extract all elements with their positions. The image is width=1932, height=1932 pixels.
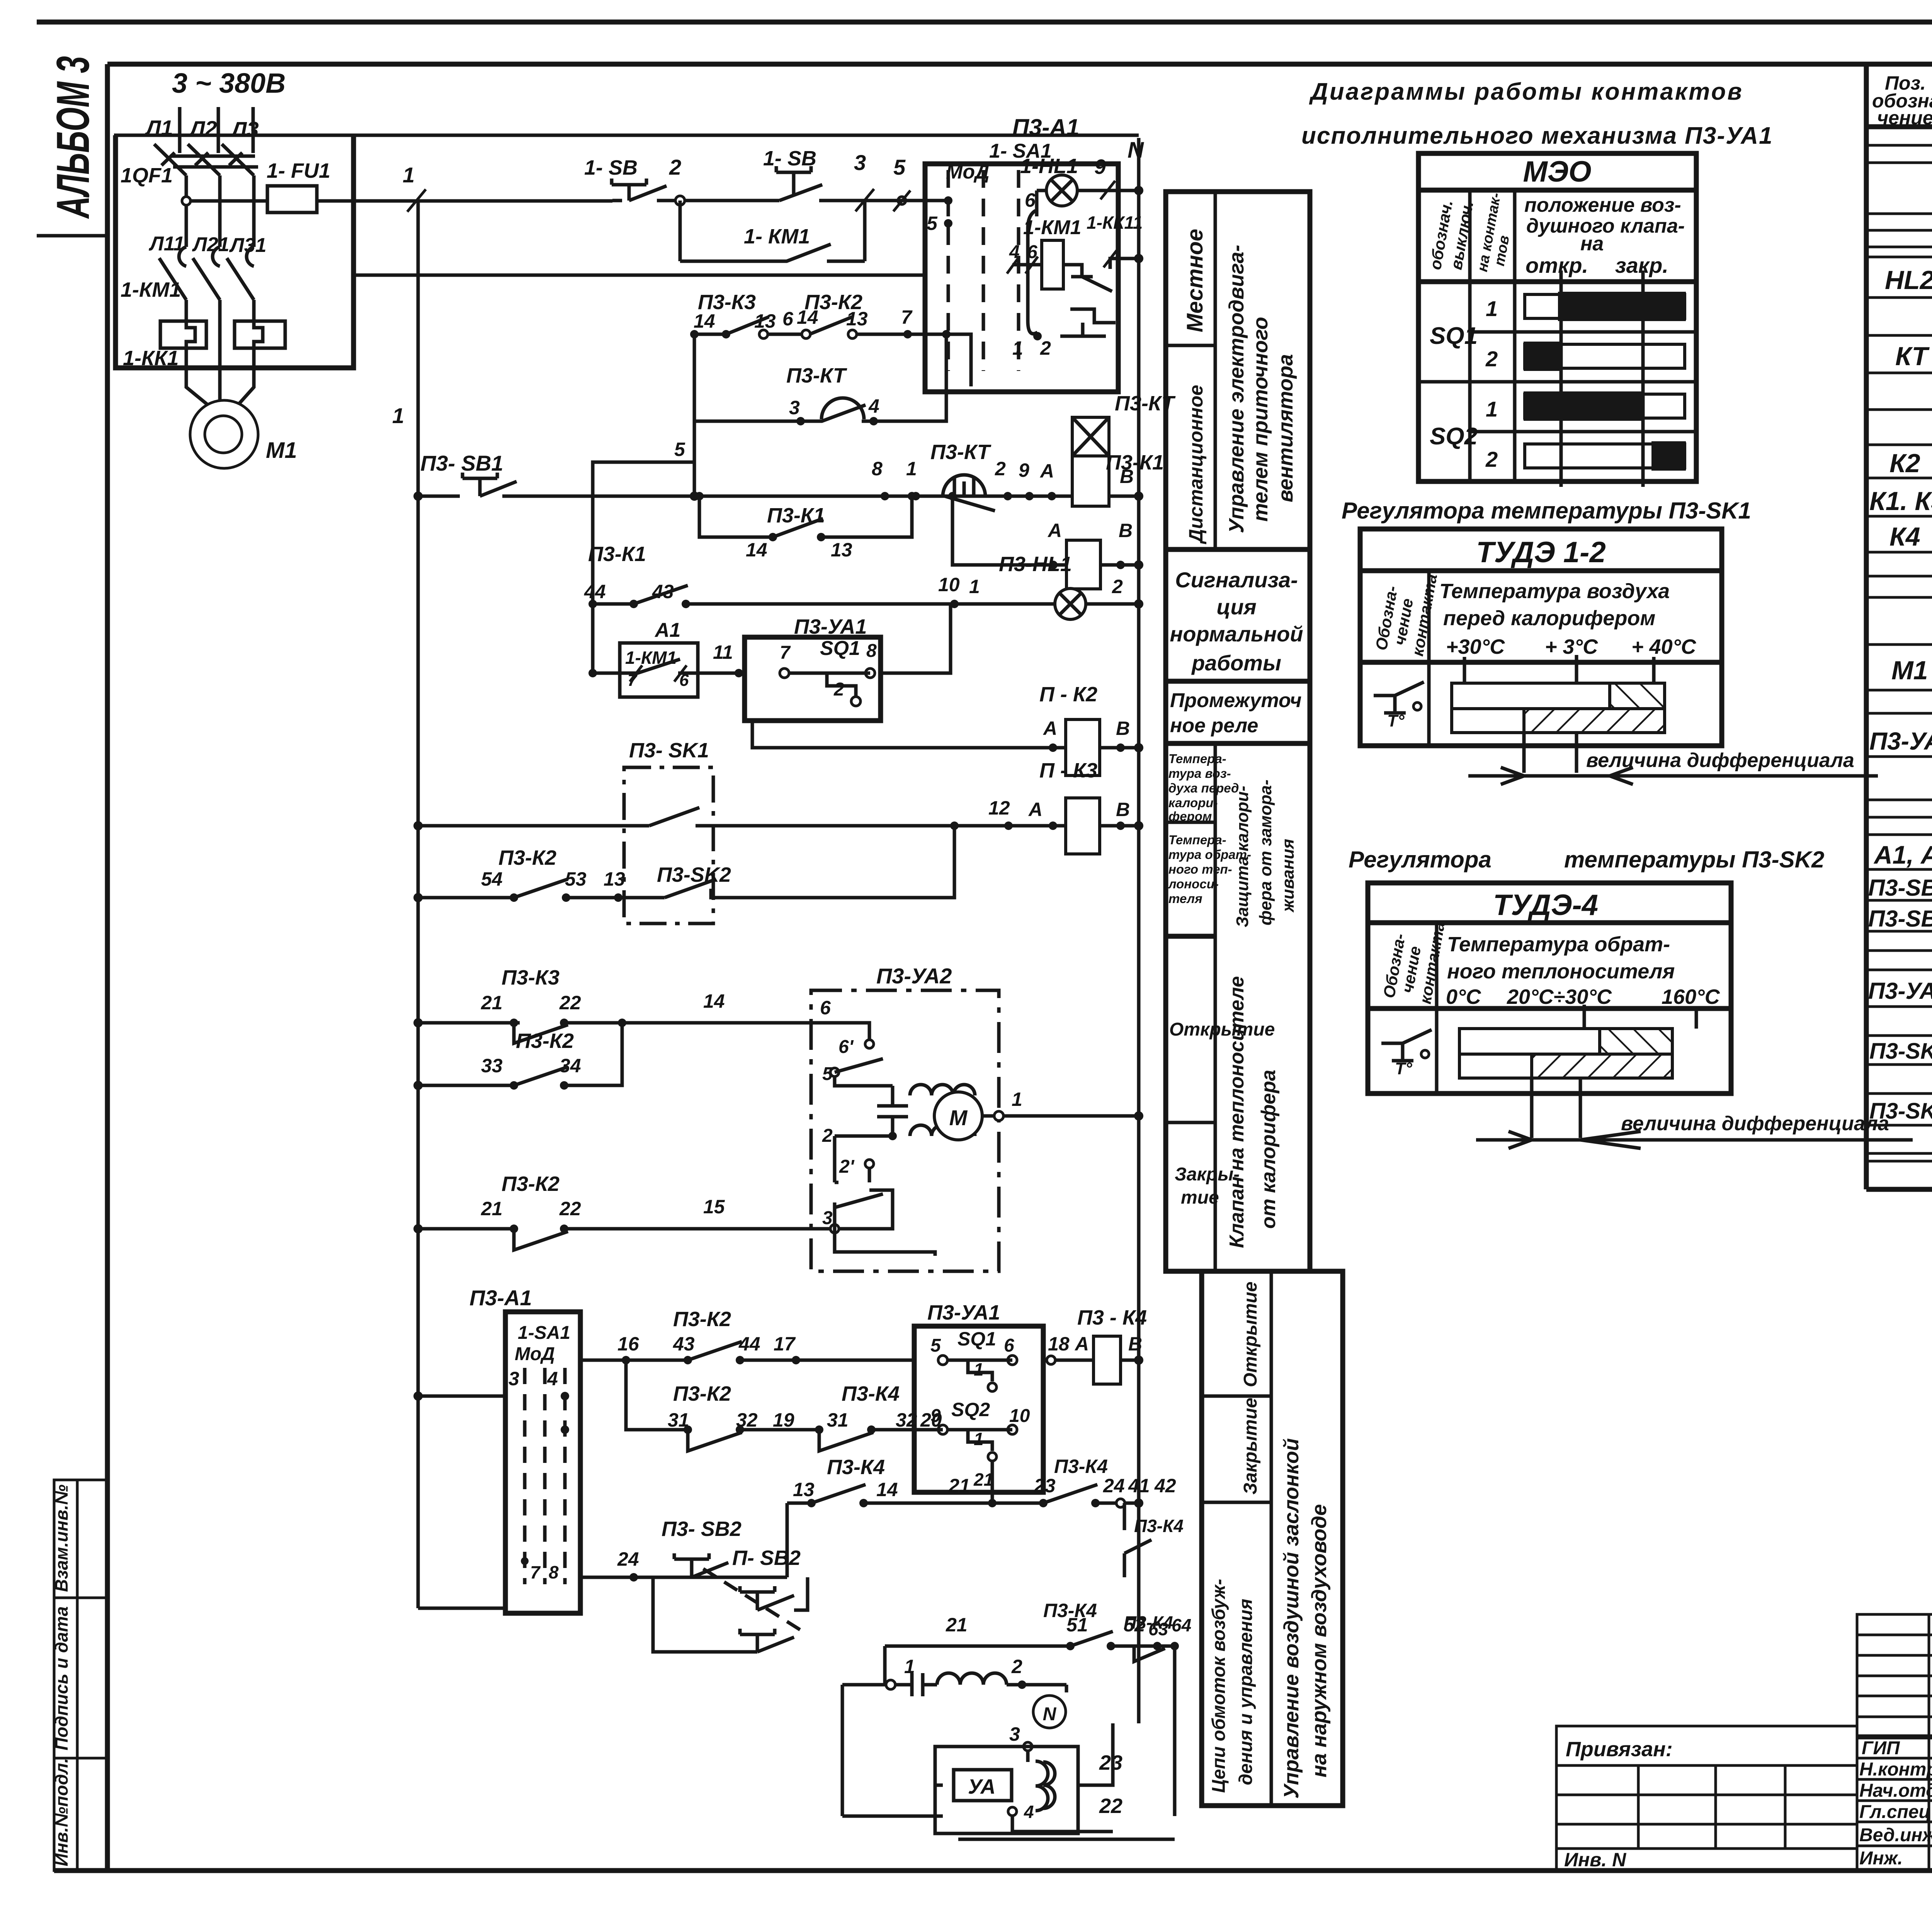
svg-text:Взам.инв.№: Взам.инв.№	[51, 1484, 71, 1592]
svg-text:19: 19	[773, 1409, 794, 1431]
svg-text:44: 44	[584, 581, 606, 602]
svg-text:43: 43	[673, 1333, 695, 1355]
svg-text:П3-К4: П3-К4	[827, 1456, 885, 1479]
node labels 8 1	[872, 458, 920, 500]
diagram heading	[1301, 78, 1773, 149]
start button 1-SB	[685, 147, 865, 201]
svg-text:от калорифера: от калорифера	[1257, 1070, 1280, 1229]
svg-text:24: 24	[617, 1548, 639, 1570]
svg-text:11: 11	[713, 641, 733, 663]
close rung P3-K2 31-32 P3-K4 31-32	[626, 1360, 943, 1451]
svg-text:П3-К4: П3-К4	[1054, 1456, 1108, 1477]
svg-text:П - К2: П - К2	[1039, 683, 1097, 706]
privyazan block	[1556, 1726, 1857, 1871]
time relay contact P3-KT 3-4	[694, 330, 951, 496]
svg-text:13: 13	[831, 539, 852, 561]
svg-text:8: 8	[872, 458, 883, 480]
TUDE-4 heading	[1349, 847, 1824, 872]
title block signature table	[1857, 1614, 1932, 1869]
svg-text:22: 22	[559, 1198, 581, 1219]
svg-text:П3-УА1: П3-УА1	[1869, 727, 1932, 755]
svg-text:1: 1	[1012, 337, 1023, 359]
thermal relay heaters 1-KK1	[123, 300, 285, 370]
svg-text:52: 52	[1124, 1614, 1145, 1636]
enclosure box power assembly	[116, 135, 354, 368]
svg-text:1: 1	[392, 403, 404, 428]
svg-text:SQ1: SQ1	[957, 1328, 996, 1350]
svg-text:Клапан на теплоносителе: Клапан на теплоносителе	[1226, 976, 1248, 1248]
svg-text:1: 1	[1486, 296, 1498, 321]
drawing frame bottom	[54, 1868, 1932, 1873]
svg-text:П3-УА2: П3-УА2	[876, 964, 952, 988]
svg-text:2: 2	[1040, 337, 1051, 359]
svg-text:1-КМ1: 1-КМ1	[121, 278, 181, 301]
svg-text:1-HL1: 1-HL1	[1020, 155, 1078, 178]
svg-text:1-КК1: 1-КК1	[123, 347, 179, 370]
relay contact P3-K1 44-43 signal rung	[584, 496, 1055, 673]
svg-text:3: 3	[789, 397, 800, 418]
svg-text:П3-А1: П3-А1	[1012, 114, 1079, 140]
wire 23	[935, 1723, 1122, 1832]
svg-text:ное реле: ное реле	[1170, 714, 1258, 737]
svg-text:5: 5	[674, 439, 685, 460]
svg-text:5: 5	[930, 1335, 941, 1356]
auxiliary box A1 1-KM1	[588, 619, 745, 697]
svg-text:21: 21	[973, 1469, 993, 1490]
svg-text:П3-К2: П3-К2	[516, 1029, 574, 1053]
svg-text:Защита калори-: Защита калори-	[1233, 786, 1252, 927]
parts list header text	[1872, 72, 1932, 129]
bypass jog wire 5	[593, 439, 699, 501]
svg-text:вентилятора: вентилятора	[1274, 354, 1297, 502]
svg-text:М1: М1	[1891, 656, 1928, 685]
circuit breaker 1QF1	[121, 144, 258, 247]
actuator box P3-UA1	[713, 604, 951, 721]
svg-text:5: 5	[927, 213, 938, 234]
svg-text:теля: теля	[1168, 891, 1202, 906]
svg-text:нормальной: нормальной	[1170, 622, 1303, 646]
svg-text:3: 3	[854, 150, 866, 175]
svg-text:2: 2	[822, 1126, 833, 1146]
svg-text:перед калорифером: перед калорифером	[1443, 607, 1655, 630]
svg-text:1- SB: 1- SB	[584, 156, 638, 179]
svg-text:Привязан:: Привязан:	[1566, 1738, 1673, 1761]
svg-text:П3 - К4: П3 - К4	[1077, 1306, 1147, 1329]
svg-text:Инж.: Инж.	[1859, 1848, 1903, 1869]
svg-text:А: А	[1047, 520, 1062, 541]
svg-text:21: 21	[481, 1198, 503, 1219]
TUDE-4 table	[1368, 883, 1731, 1138]
page top border	[37, 20, 1932, 25]
svg-text:Т°: Т°	[1387, 711, 1405, 730]
svg-text:КТ: КТ	[1895, 342, 1930, 371]
svg-text:2: 2	[1011, 1656, 1022, 1677]
svg-text:1- КМ1: 1- КМ1	[744, 225, 810, 248]
N terminal	[1128, 138, 1144, 1723]
svg-text:24: 24	[1103, 1475, 1125, 1497]
svg-text:М1: М1	[266, 438, 297, 463]
svg-text:Открытие: Открытие	[1169, 1019, 1275, 1040]
svg-text:SQ1: SQ1	[1430, 323, 1478, 349]
relay contact P3-K1 14-13 bypass	[695, 492, 916, 561]
box P3-A1 upper	[925, 114, 1118, 392]
svg-text:чение: чение	[1877, 107, 1932, 129]
svg-text:44: 44	[738, 1333, 760, 1355]
svg-text:+ 3°С: + 3°С	[1545, 635, 1598, 658]
motor M	[934, 1092, 982, 1140]
svg-text:1: 1	[974, 1359, 984, 1379]
svg-text:Темпера-: Темпера-	[1168, 833, 1226, 847]
svg-text:2: 2	[833, 679, 844, 700]
svg-text:живания: живания	[1279, 839, 1298, 913]
svg-text:13: 13	[604, 868, 625, 890]
relay contact P3-K2 21-22 close rung	[413, 1172, 811, 1250]
relay contacts P3-K3 P3-K2 rung	[690, 291, 971, 386]
lamp 1-HL1	[1020, 155, 1108, 216]
valve actuator box P3-UA2	[811, 964, 1143, 1271]
svg-text:9: 9	[1019, 459, 1029, 481]
svg-text:14: 14	[797, 306, 818, 328]
svg-text:2: 2	[669, 155, 681, 179]
svg-text:калори-: калори-	[1168, 796, 1218, 810]
svg-text:А1, А2: А1, А2	[1873, 840, 1932, 869]
album label АЛЬБОМ 3	[37, 56, 107, 236]
svg-text:2: 2	[1112, 576, 1123, 597]
svg-text:П3- SB1: П3- SB1	[420, 451, 503, 475]
bars	[1452, 683, 1665, 709]
intermediate relay P-K2	[752, 683, 1143, 776]
svg-text:П3-SK1: П3-SK1	[1869, 1039, 1932, 1064]
node 5	[865, 155, 948, 211]
UA coil block	[935, 1747, 1078, 1833]
svg-text:на наружном воздуховоде: на наружном воздуховоде	[1308, 1504, 1331, 1777]
svg-text:ного теп-: ного теп-	[1168, 862, 1232, 876]
svg-text:+ 40°С: + 40°С	[1631, 635, 1696, 658]
svg-text:4: 4	[1024, 1802, 1034, 1822]
svg-text:Сигнализа-: Сигнализа-	[1175, 568, 1298, 592]
svg-text:МЭО: МЭО	[1523, 155, 1591, 188]
svg-text:исполнительного механизма П3: исполнительного механизма П3-УА1	[1301, 122, 1773, 149]
svg-text:П3-К4: П3-К4	[1134, 1516, 1184, 1536]
svg-text:П3-КТ: П3-КТ	[786, 364, 847, 387]
top bus wire	[114, 134, 1139, 137]
svg-text:АЛЬБОМ 3: АЛЬБОМ 3	[47, 56, 99, 219]
svg-text:13: 13	[793, 1479, 815, 1500]
stop button 1-SB	[584, 156, 680, 201]
SQ2 contact 2 bar	[1525, 444, 1685, 468]
svg-text:Темпера-: Темпера-	[1168, 752, 1226, 766]
svg-text:телем приточного: телем приточного	[1249, 317, 1272, 522]
thermal contact symbol	[1381, 1030, 1432, 1061]
svg-text:5: 5	[893, 155, 906, 179]
svg-text:В: В	[1116, 718, 1130, 739]
relay contact P3-K2 54-53 rung	[413, 821, 959, 902]
svg-text:тура воз-: тура воз-	[1168, 766, 1231, 781]
svg-text:Дистанционное: Дистанционное	[1185, 385, 1207, 544]
contactor coil 1-KM1	[1007, 216, 1081, 289]
svg-text:Управление воздушной заслонк: Управление воздушной заслонкой	[1280, 1438, 1303, 1799]
svg-text:15: 15	[703, 1196, 725, 1218]
svg-text:SQ2: SQ2	[1430, 423, 1478, 450]
svg-text:духа перед: духа перед	[1168, 781, 1239, 795]
svg-text:1-SA1: 1-SA1	[518, 1323, 570, 1343]
pushbuttons P3-SB2 / P-SB2	[580, 1503, 808, 1652]
svg-text:6: 6	[1004, 1335, 1014, 1356]
svg-text:П3-К3: П3-К3	[502, 966, 560, 989]
svg-text:Температура обрат-: Температура обрат-	[1447, 933, 1670, 956]
svg-text:П3-SB2: П3-SB2	[1868, 906, 1932, 932]
drawing frame top	[107, 62, 1932, 67]
svg-text:К4: К4	[1889, 522, 1920, 551]
svg-text:положение воз-: положение воз-	[1524, 194, 1681, 216]
contactor aux contact 1-KM1 holding	[680, 201, 865, 261]
svg-text:ТУДЭ-4: ТУДЭ-4	[1493, 889, 1598, 922]
svg-text:7: 7	[901, 306, 913, 328]
motor windings	[910, 1125, 975, 1136]
svg-text:10: 10	[938, 574, 960, 595]
svg-text:Т°: Т°	[1395, 1059, 1412, 1078]
svg-text:18: 18	[1048, 1333, 1070, 1355]
svg-text:41: 41	[1128, 1475, 1150, 1497]
svg-text:1: 1	[906, 458, 917, 480]
contactor main contacts 1-KM1	[121, 247, 254, 301]
svg-text:тие: тие	[1181, 1187, 1219, 1208]
svg-text:М: М	[949, 1105, 968, 1130]
svg-text:Цепи обмоток возбуж-: Цепи обмоток возбуж-	[1209, 1579, 1229, 1793]
svg-text:6: 6	[782, 308, 794, 330]
svg-text:23: 23	[1034, 1475, 1056, 1497]
svg-text:14: 14	[876, 1479, 898, 1500]
svg-text:Управление электродвига-: Управление электродвига-	[1225, 245, 1248, 533]
time relay coil P3-KT	[1072, 392, 1176, 506]
svg-text:П3-К1: П3-К1	[767, 504, 825, 527]
svg-text:Подпись и дата: Подпись и дата	[51, 1606, 71, 1750]
wires heaters to motor	[186, 300, 254, 406]
svg-text:температуры П3-SK2: температуры П3-SK2	[1564, 847, 1824, 872]
parts list rows text	[1868, 177, 1932, 1125]
left margin stamp column	[51, 1480, 107, 1871]
svg-text:1: 1	[969, 576, 980, 597]
svg-text:16: 16	[617, 1333, 639, 1355]
svg-text:51: 51	[1066, 1614, 1088, 1636]
actuator box P3-UA1 lower	[914, 1301, 1043, 1507]
svg-text:6: 6	[820, 997, 831, 1019]
SQ1 contact 1 bar	[1525, 294, 1685, 318]
svg-text:0°С: 0°С	[1446, 985, 1481, 1009]
svg-text:3: 3	[509, 1368, 519, 1389]
svg-text:34: 34	[560, 1055, 581, 1077]
svg-text:4: 4	[868, 395, 879, 417]
wire bus to lower box	[413, 1368, 558, 1608]
svg-text:величина дифференциала: величина дифференциала	[1621, 1112, 1889, 1135]
svg-text:Вед.инж: Вед.инж	[1859, 1825, 1932, 1845]
phase labels L1 L2 L3	[145, 116, 259, 141]
svg-text:14: 14	[746, 539, 767, 561]
svg-text:Л21: Л21	[192, 233, 230, 256]
svg-text:12: 12	[988, 797, 1010, 819]
svg-text:1: 1	[403, 163, 415, 187]
velichina differenciala 1	[1468, 749, 1878, 784]
svg-text:4: 4	[547, 1368, 558, 1389]
neutral motor N	[1009, 1685, 1066, 1762]
svg-text:К1. К3: К1. К3	[1869, 486, 1932, 516]
svg-text:7: 7	[780, 643, 791, 663]
svg-text:63: 63	[1148, 1619, 1168, 1639]
svg-text:2': 2'	[839, 1156, 855, 1177]
node 2	[669, 155, 685, 205]
svg-text:2: 2	[1485, 347, 1498, 371]
bars	[1459, 1029, 1672, 1054]
svg-text:1-КК11: 1-КК11	[1087, 213, 1143, 233]
SQ2 contact 1 bar	[1525, 394, 1685, 418]
node 3	[854, 150, 874, 211]
lower box P3-A1	[469, 1286, 580, 1613]
svg-text:SQ2: SQ2	[951, 1399, 990, 1420]
svg-text:Инв.№подл.: Инв.№подл.	[51, 1758, 71, 1866]
svg-text:П3-УА1: П3-УА1	[927, 1301, 1000, 1324]
svg-text:П3-К2: П3-К2	[673, 1382, 731, 1405]
svg-text:6': 6'	[838, 1037, 854, 1057]
middle legend table upper	[1166, 192, 1310, 1271]
svg-text:П3- SB2: П3- SB2	[662, 1517, 742, 1541]
svg-text:6: 6	[1025, 189, 1036, 211]
svg-text:Нач.отд: Нач.отд	[1859, 1781, 1932, 1801]
velichina differenciala 2	[1476, 1112, 1913, 1148]
svg-text:9: 9	[1094, 155, 1106, 179]
wire node1 to 1-SB	[417, 199, 612, 203]
svg-text:33: 33	[481, 1055, 503, 1077]
wire SB1 to KT coil rung	[593, 495, 1072, 498]
svg-text:лоноси-: лоноси-	[1168, 877, 1219, 891]
svg-text:Температура воздуха: Температура воздуха	[1439, 580, 1670, 603]
svg-text:фером: фером	[1168, 809, 1212, 823]
svg-text:42: 42	[1154, 1475, 1176, 1497]
svg-text:2: 2	[1485, 447, 1498, 471]
svg-text:Регулятора: Регулятора	[1349, 847, 1492, 872]
svg-text:1: 1	[1012, 1088, 1022, 1110]
pushbutton P3-SB1	[413, 451, 593, 501]
svg-text:2: 2	[995, 458, 1006, 480]
svg-text:Закрытие: Закрытие	[1240, 1398, 1261, 1495]
time relay delay contact P3-KT	[930, 440, 1056, 511]
svg-text:21: 21	[946, 1614, 968, 1636]
svg-text:А1: А1	[654, 619, 680, 641]
svg-text:14: 14	[694, 310, 715, 332]
svg-text:160°С: 160°С	[1662, 985, 1720, 1009]
phase tap labels L11 L21 L31	[148, 233, 267, 257]
svg-text:душного клапа-: душного клапа-	[1526, 215, 1685, 237]
svg-text:Инв. N: Инв. N	[1564, 1849, 1626, 1871]
svg-text:П3-А1: П3-А1	[469, 1286, 532, 1310]
svg-text:П3-SB1: П3-SB1	[1868, 875, 1932, 901]
drawing frame left	[105, 64, 110, 1871]
svg-text:1: 1	[974, 1429, 984, 1449]
thermal contact symbol	[1374, 682, 1424, 713]
svg-text:N: N	[1128, 138, 1144, 163]
svg-text:А: А	[1043, 718, 1057, 739]
svg-text:работы: работы	[1191, 651, 1281, 675]
svg-text:П- SB2: П- SB2	[732, 1546, 801, 1570]
svg-text:В: В	[1119, 520, 1133, 541]
node 1	[403, 163, 426, 212]
svg-text:22: 22	[1099, 1794, 1122, 1818]
svg-text:П3-К1: П3-К1	[588, 543, 646, 566]
svg-text:П3-HL1: П3-HL1	[999, 553, 1072, 576]
svg-text:Л2: Л2	[189, 116, 217, 141]
svg-text:П3-К4: П3-К4	[842, 1382, 900, 1405]
fuse 1-FU1	[182, 159, 417, 213]
svg-text:1: 1	[1486, 397, 1498, 421]
svg-text:П3-К2: П3-К2	[673, 1308, 731, 1331]
svg-text:1QF1: 1QF1	[121, 164, 173, 187]
svg-text:на: на	[1580, 233, 1604, 255]
svg-text:1-КМ1: 1-КМ1	[1023, 216, 1081, 239]
svg-text:32: 32	[896, 1409, 917, 1431]
svg-text:П3- SK1: П3- SK1	[629, 739, 709, 762]
svg-text:УА: УА	[968, 1775, 996, 1798]
interconnection wire to box P3-A1	[354, 274, 925, 277]
svg-text:7: 7	[530, 1562, 541, 1582]
svg-text:ного теплоносителя: ного теплоносителя	[1447, 960, 1675, 983]
svg-text:53: 53	[565, 868, 587, 890]
svg-text:ция: ция	[1216, 595, 1256, 619]
svg-text:дения и управления: дения и управления	[1236, 1599, 1256, 1785]
svg-text:1-КМ1: 1-КМ1	[625, 648, 677, 668]
svg-text:П3-КТ: П3-КТ	[1115, 392, 1176, 415]
rung P3-K4 13-14 23-24 41-42	[787, 1456, 1184, 1577]
svg-text:1- FU1: 1- FU1	[267, 159, 330, 182]
svg-text:8: 8	[866, 641, 877, 661]
svg-text:Открытие: Открытие	[1240, 1282, 1261, 1387]
svg-text:17: 17	[774, 1333, 796, 1355]
svg-text:8: 8	[549, 1562, 559, 1582]
svg-text:1- SB: 1- SB	[763, 147, 816, 170]
svg-text:МоД: МоД	[515, 1344, 555, 1364]
svg-text:Гл.спец: Гл.спец	[1859, 1802, 1931, 1822]
relay coil P3-K1	[948, 451, 1164, 589]
release step symbol	[1060, 309, 1116, 336]
svg-text:N: N	[1043, 1704, 1057, 1725]
svg-text:31: 31	[827, 1409, 849, 1431]
svg-text:54: 54	[481, 868, 503, 890]
svg-text:Н.контр: Н.контр	[1859, 1759, 1932, 1780]
svg-text:К2: К2	[1889, 449, 1920, 478]
relay contact P3-K2 33-34 parallel	[413, 1023, 622, 1090]
svg-text:21: 21	[481, 992, 503, 1014]
svg-text:Местное: Местное	[1182, 229, 1207, 332]
svg-text:А: А	[1028, 799, 1043, 820]
svg-text:П3-К2: П3-К2	[498, 846, 556, 869]
MEO contact diagram table	[1418, 153, 1696, 487]
svg-text:П3-К2: П3-К2	[502, 1172, 560, 1196]
svg-text:ТУДЭ 1-2: ТУДЭ 1-2	[1476, 536, 1605, 569]
svg-text:21: 21	[948, 1475, 970, 1497]
relay contacts P3-K4 51-52 63-64	[885, 1600, 1191, 1816]
svg-text:14: 14	[703, 990, 725, 1012]
svg-text:В: В	[1128, 1333, 1142, 1355]
svg-text:ГИП: ГИП	[1862, 1738, 1900, 1759]
svg-text:+30°С: +30°С	[1446, 635, 1505, 658]
capacitor	[877, 1086, 908, 1136]
svg-text:А: А	[1074, 1333, 1089, 1355]
svg-text:10: 10	[1009, 1406, 1030, 1426]
svg-text:П3-УА2: П3-УА2	[1868, 978, 1932, 1004]
svg-text:П - К3: П - К3	[1039, 759, 1097, 782]
svg-text:20°С÷30°С: 20°С÷30°С	[1507, 985, 1612, 1009]
relay coil P3-K4	[1043, 1306, 1147, 1384]
svg-text:П3-SK2: П3-SK2	[657, 863, 731, 886]
svg-text:В: В	[1116, 799, 1130, 820]
